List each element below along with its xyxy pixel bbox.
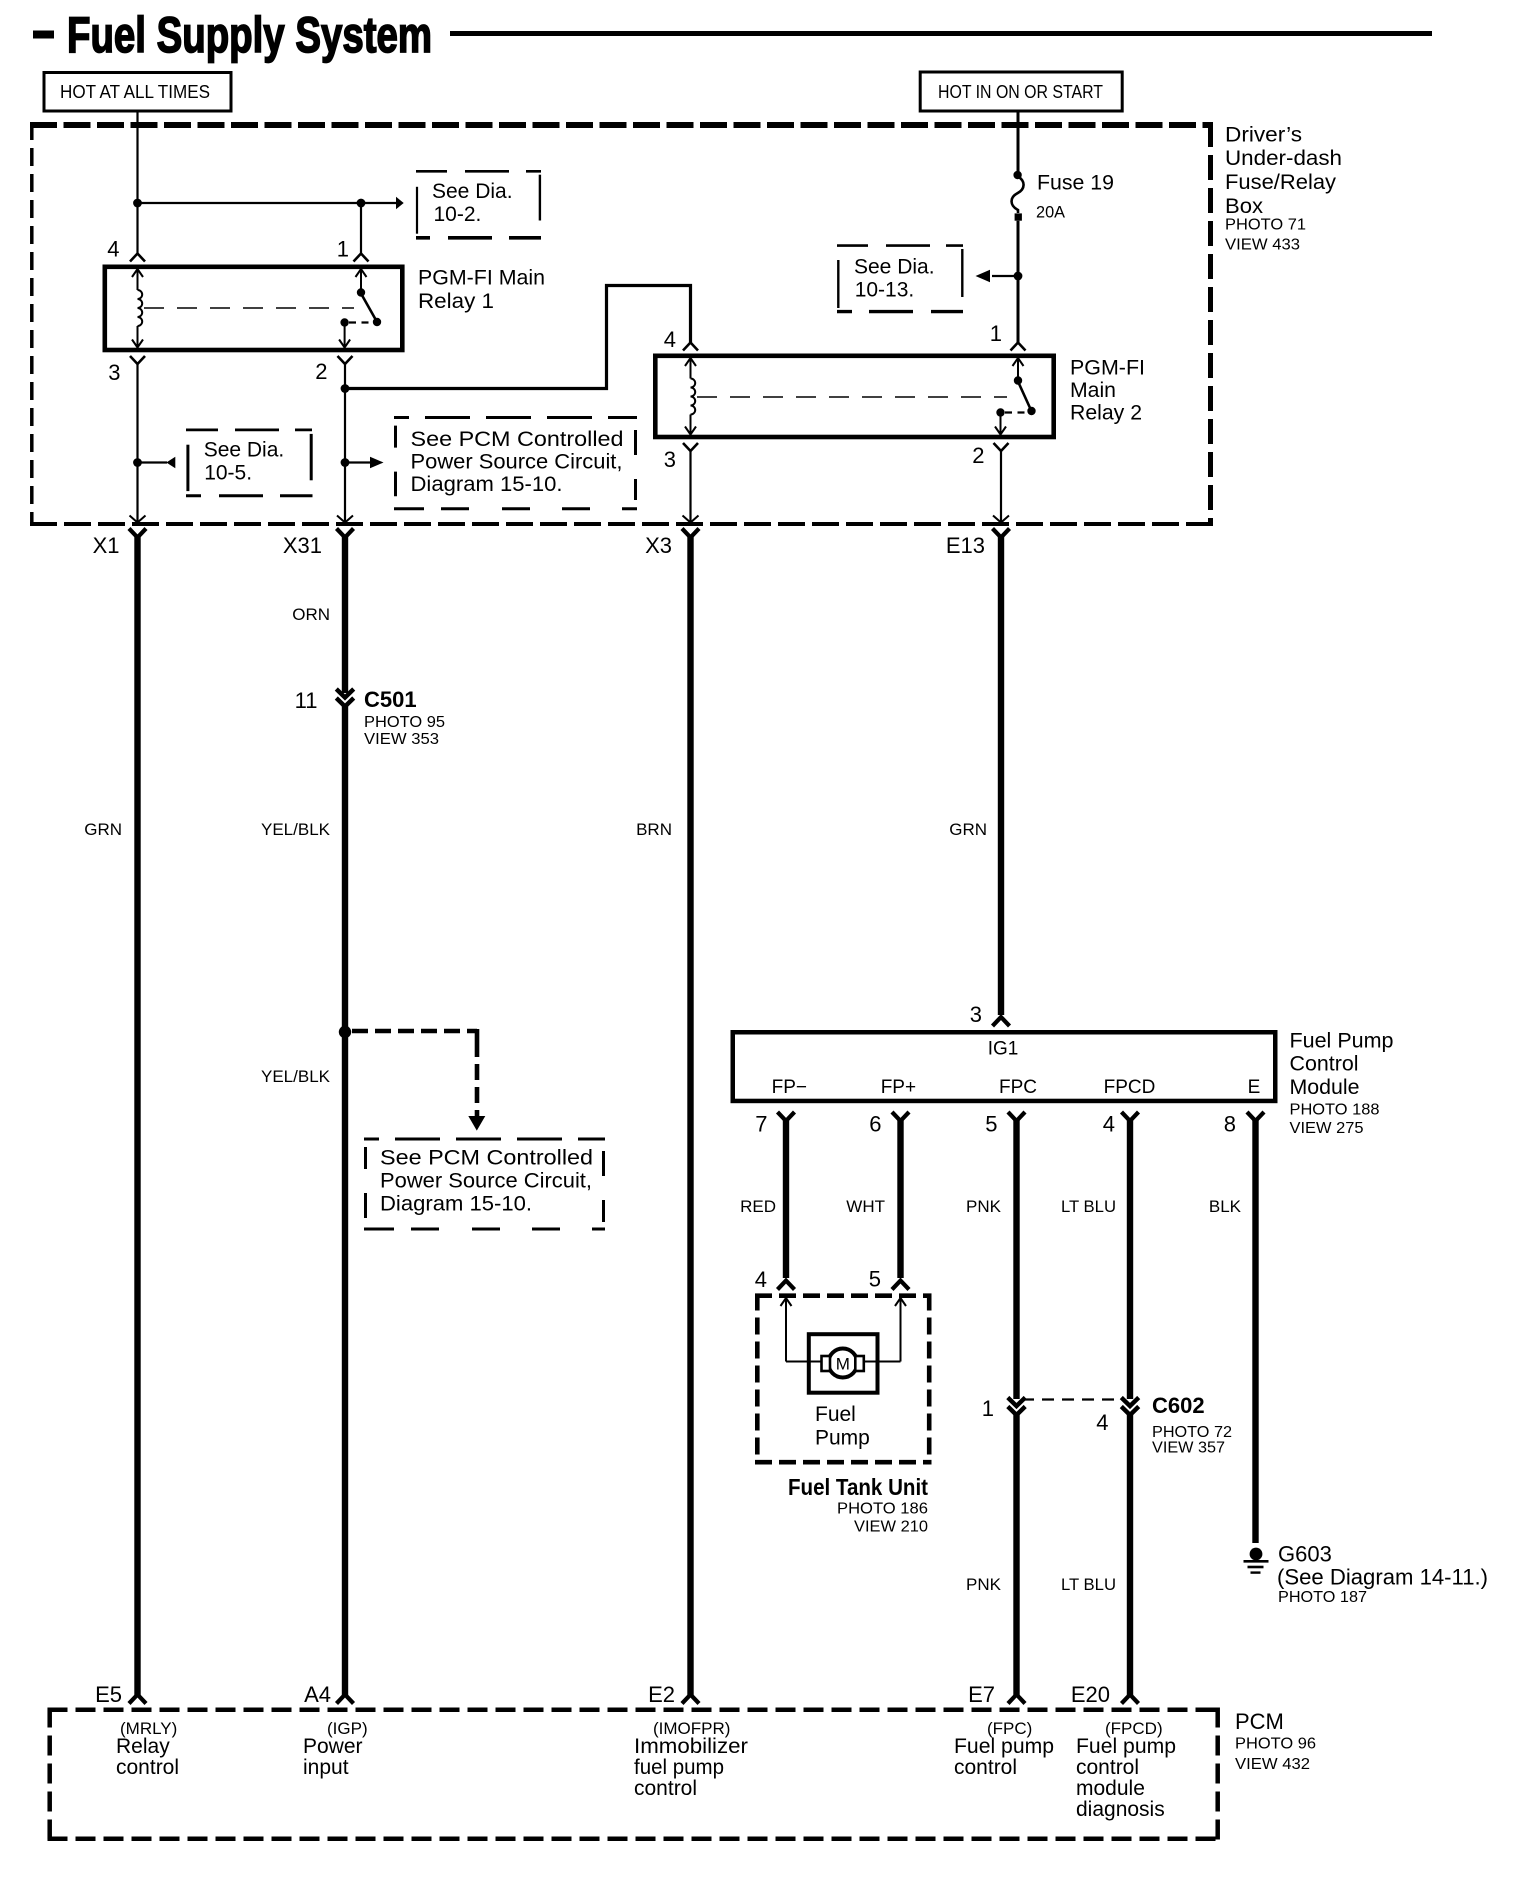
svg-text:input: input (303, 1756, 349, 1779)
See Dia 10-13 box left (837, 260, 839, 308)
dashed stub horizontal (352, 1029, 477, 1034)
See PCM lower box top (364, 1138, 605, 1141)
PCM terminal A4 (337, 1695, 354, 1704)
FTU pin5 inner wire (900, 1298, 902, 1362)
FTU box top (755, 1293, 932, 1298)
svg-text:BLK: BLK (1209, 1197, 1242, 1216)
svg-text:6: 6 (869, 1112, 881, 1137)
ground G603 bar 1 (1244, 1560, 1269, 1563)
See PCM lower box bottom (364, 1228, 605, 1231)
node junction above relay1 pin1 (357, 199, 366, 208)
svg-text:HOT IN ON OR START: HOT IN ON OR START (938, 82, 1103, 102)
svg-text:VIEW 275: VIEW 275 (1290, 1120, 1364, 1137)
See Dia 10-5 box bottom (186, 494, 313, 497)
wire relay1 pin3 to X1 (136, 364, 138, 523)
connector X1 terminal (129, 529, 146, 538)
svg-text:(See Diagram 14-11.): (See Diagram 14-11.) (1277, 1565, 1488, 1590)
connector C602 FPC lower chevron (1008, 1407, 1025, 1416)
svg-text:Diagram 15-10.: Diagram 15-10. (380, 1193, 532, 1216)
svg-text:E2: E2 (648, 1682, 675, 1707)
PCM box top (48, 1707, 1221, 1712)
svg-text:E7: E7 (968, 1682, 995, 1707)
svg-text:GRN: GRN (84, 820, 122, 839)
fuse F19 bottom square (1015, 213, 1022, 220)
svg-text:control: control (1076, 1756, 1139, 1779)
PCM box left (47, 1708, 52, 1842)
arrow at box edge X1 (130, 516, 146, 523)
node junction See Dia 10-13 (1014, 272, 1023, 281)
svg-text:8: 8 (1224, 1112, 1236, 1137)
svg-text:HOT AT ALL TIMES: HOT AT ALL TIMES (60, 82, 210, 102)
connector C501 upper chevron (336, 689, 353, 698)
svg-text:4: 4 (1103, 1112, 1115, 1137)
relay U2 switch arm (1018, 382, 1031, 410)
wire relay2 pin2 to E13 (1000, 451, 1002, 523)
fuel pump box (809, 1334, 878, 1393)
arrow at box edge X31 (337, 516, 353, 523)
svg-text:3: 3 (108, 360, 120, 385)
arrow to See Dia 10-2 (396, 197, 404, 210)
svg-text:Fuse 19: Fuse 19 (1037, 172, 1114, 195)
svg-text:G603: G603 (1278, 1542, 1332, 1567)
wire relay2 pin3 to X3 (689, 451, 691, 523)
svg-text:See Dia.: See Dia. (854, 256, 935, 279)
relay U1 PGM-FI Main Relay 1 box (105, 267, 403, 350)
arrow to See Dia 10-13 (976, 270, 991, 282)
FPCM bottom terminal pin 8 (1247, 1112, 1264, 1121)
FTU box left (755, 1294, 760, 1465)
svg-text:4: 4 (1096, 1410, 1108, 1435)
relay U2 switch contact dot (996, 408, 1004, 416)
svg-text:See Dia.: See Dia. (432, 180, 513, 203)
FPCM bottom terminal pin 5 (1008, 1112, 1025, 1121)
relay U2 pin 1 terminal (1011, 343, 1026, 351)
relay U2 coil wire lower (690, 415, 692, 435)
arrow from See Dia 10-5 (166, 457, 175, 469)
FPCM bottom terminal pin 6 (892, 1112, 909, 1121)
relay U1 coil (138, 290, 143, 326)
wire stub from See Dia 10-5 (138, 461, 168, 463)
svg-text:VIEW 433: VIEW 433 (1225, 237, 1300, 254)
relay U2 coil (691, 379, 696, 415)
svg-text:PHOTO 188: PHOTO 188 (1290, 1101, 1380, 1118)
wire horizontal to relay1 pin1 (138, 202, 362, 204)
wire stub to See PCM box (345, 461, 371, 463)
relay U1 coil pin3 arrow (132, 340, 143, 348)
FPCM bottom terminal pin 7 (778, 1112, 795, 1121)
relay U2 switch feed (1017, 358, 1019, 381)
svg-text:E: E (1248, 1077, 1261, 1098)
wire FPCD upper (LT BLU) (1127, 1118, 1133, 1399)
relay U2 pin2 wire (1000, 413, 1002, 435)
svg-text:Fuel: Fuel (815, 1403, 856, 1426)
fuel pump brush right (855, 1356, 864, 1371)
connector C602 dashed link (1022, 1398, 1124, 1400)
svg-text:C501: C501 (364, 687, 417, 712)
wire battery feed from HOT AT ALL TIMES (136, 113, 138, 254)
svg-text:YEL/BLK: YEL/BLK (261, 1067, 331, 1086)
svg-text:4: 4 (107, 237, 119, 262)
wire X1 to E5 (GRN) (134, 535, 140, 1696)
svg-text:VIEW 432: VIEW 432 (1235, 1756, 1310, 1773)
arrow to See PCM box (370, 457, 384, 469)
svg-text:Fuel pump: Fuel pump (954, 1735, 1054, 1758)
title rule (450, 31, 1432, 36)
svg-text:Driver’s: Driver’s (1225, 124, 1302, 147)
svg-text:E5: E5 (95, 1682, 122, 1707)
relay U1 switch dashed contact (349, 321, 373, 323)
arrow at box edge X3 (683, 516, 699, 523)
relay U2 pin 2 terminal (994, 443, 1009, 451)
svg-text:Power: Power (303, 1735, 363, 1758)
svg-text:PHOTO 71: PHOTO 71 (1225, 217, 1306, 234)
svg-text:5: 5 (869, 1267, 881, 1292)
svg-text:PCM: PCM (1235, 1709, 1284, 1734)
title dash (33, 31, 54, 39)
See PCM upper box bottom (394, 507, 637, 510)
connector X31 terminal (337, 529, 354, 538)
FTU pin 5 terminal (892, 1281, 909, 1290)
svg-text:X31: X31 (283, 533, 322, 558)
ground G603 bar 3 (1251, 1571, 1261, 1573)
relay U1 coil wire lower (137, 326, 139, 348)
svg-text:ORN: ORN (292, 605, 330, 624)
connector E13 terminal (993, 529, 1010, 538)
relay U1 switch pivot (357, 288, 365, 296)
svg-text:3: 3 (970, 1002, 982, 1027)
svg-text:2: 2 (972, 443, 984, 468)
relay U1 switch feed (360, 269, 362, 293)
See Dia 10-5 box top (186, 428, 313, 431)
svg-text:fuel pump: fuel pump (634, 1756, 724, 1779)
relay U2 pin 3 terminal (683, 443, 698, 451)
relay U2 coil wire upper (690, 358, 692, 379)
FTU pin 4 terminal (778, 1281, 795, 1290)
See Dia 10-5 box right (310, 434, 313, 480)
svg-text:E20: E20 (1071, 1682, 1110, 1707)
svg-text:Power Source Circuit,: Power Source Circuit, (380, 1170, 592, 1193)
See Dia 10-13 box top (837, 244, 964, 247)
svg-text:X1: X1 (93, 533, 120, 558)
svg-text:M: M (836, 1355, 850, 1374)
wire FPC upper (PNK) (1013, 1118, 1019, 1399)
relay U2 pin 4 terminal (683, 343, 698, 351)
dashed stub arrowhead (468, 1116, 485, 1131)
svg-text:WHT: WHT (846, 1197, 885, 1216)
fuse/relay box left border (30, 122, 34, 526)
svg-text:LT BLU: LT BLU (1061, 1197, 1116, 1216)
PCM terminal E5 (129, 1695, 146, 1704)
node junction YEL/BLK dashed stub (339, 1026, 351, 1038)
svg-text:Fuse/Relay: Fuse/Relay (1225, 171, 1337, 194)
svg-text:Fuel pump: Fuel pump (1076, 1735, 1176, 1758)
svg-text:See Dia.: See Dia. (204, 439, 285, 462)
relay U1 pin 4 terminal (130, 254, 145, 262)
relay U2 pin2 arrow (995, 427, 1006, 435)
relay U1 pin 1 terminal (354, 254, 369, 262)
svg-text:diagnosis: diagnosis (1076, 1798, 1165, 1821)
FTU box bottom (755, 1460, 932, 1465)
svg-text:A4: A4 (304, 1682, 331, 1707)
svg-text:control: control (116, 1756, 179, 1779)
relay U1 switch contact dot (340, 318, 348, 326)
svg-text:FPC: FPC (999, 1077, 1037, 1098)
ground G603 dot (1250, 1548, 1263, 1561)
FPCM box (733, 1032, 1276, 1101)
svg-text:PHOTO 96: PHOTO 96 (1235, 1736, 1316, 1753)
dashed stub vertical (475, 1029, 480, 1116)
See PCM lower box left (364, 1147, 367, 1218)
svg-text:2: 2 (315, 359, 327, 384)
See PCM lower box right (602, 1151, 605, 1222)
FPCM bottom terminal pin 4 (1122, 1112, 1139, 1121)
connector C602 FPCD upper chevron (1121, 1398, 1138, 1407)
PCM box right (1215, 1708, 1220, 1842)
svg-text:Fuel Tank Unit: Fuel Tank Unit (788, 1474, 928, 1500)
relay U1 pin2 wire (344, 323, 346, 348)
wire E13 to FPCM (GRN) (998, 535, 1004, 1015)
svg-text:Under-dash: Under-dash (1225, 147, 1342, 170)
fuse/relay box right border (1208, 122, 1213, 526)
fuse F19 top dot (1013, 171, 1021, 179)
svg-text:Immobilizer: Immobilizer (634, 1735, 748, 1758)
relay U1 coil pin4 arrow (132, 269, 143, 277)
PCM box bottom (48, 1837, 1221, 1842)
svg-text:FP+: FP+ (881, 1077, 916, 1098)
FTU box right (927, 1294, 932, 1465)
node junction to relay2 link (341, 384, 350, 393)
svg-text:E13: E13 (946, 533, 985, 558)
wire stub to See Dia 10-13 (992, 275, 1018, 277)
ground G603 bar 2 (1248, 1566, 1264, 1569)
node junction X31 column (341, 458, 350, 467)
relay U2 PGM-FI Main Relay 2 box (655, 356, 1053, 437)
svg-text:1: 1 (982, 1396, 994, 1421)
arrow at box edge E13 (993, 516, 1009, 523)
svg-text:7: 7 (755, 1112, 767, 1137)
svg-text:PHOTO 95: PHOTO 95 (364, 714, 445, 731)
HOT IN ON OR START box (920, 72, 1122, 111)
See PCM upper box right (634, 430, 637, 500)
svg-text:RED: RED (740, 1197, 776, 1216)
svg-text:3: 3 (664, 447, 676, 472)
svg-text:Relay 2: Relay 2 (1070, 402, 1142, 425)
connector C602 FPC upper chevron (1008, 1398, 1025, 1407)
node junction on feed wire (133, 199, 142, 208)
relay U2 coil pin3 arrow (685, 427, 696, 435)
wire X31 upper (ORN) (342, 535, 348, 693)
wire X31 lower to A4 (YEL/BLK) (342, 704, 348, 1696)
wire fuse to relay2 pin1 (1017, 221, 1020, 343)
svg-text:4: 4 (664, 327, 676, 352)
svg-text:Box: Box (1225, 195, 1264, 218)
svg-text:Power Source Circuit,: Power Source Circuit, (411, 451, 623, 474)
svg-text:Relay 1: Relay 1 (418, 290, 494, 313)
FTU pin4 inner wire (785, 1298, 787, 1362)
See Dia 10-2 box bottom (416, 236, 541, 240)
svg-text:10-2.: 10-2. (434, 203, 482, 226)
wire relay1 pin2 to X31 (344, 364, 346, 523)
wire FP+ (WHT) (897, 1118, 903, 1278)
fuse/relay box top border (30, 122, 1213, 128)
relay U1 pin1 arrow (356, 269, 367, 277)
svg-text:PHOTO 72: PHOTO 72 (1152, 1424, 1232, 1441)
wire X3 to E2 (BRN) (687, 535, 693, 1696)
svg-text:Diagram 15-10.: Diagram 15-10. (411, 473, 563, 496)
relay U1 switch arm end dot (373, 318, 381, 326)
wire stub to See Dia 10-2 (361, 202, 397, 204)
relay U2 switch arm end dot (1027, 407, 1035, 415)
FTU pin4 inner arrow (781, 1298, 792, 1306)
svg-text:YEL/BLK: YEL/BLK (261, 820, 331, 839)
svg-text:Module: Module (1290, 1076, 1360, 1099)
svg-text:Main: Main (1070, 379, 1116, 402)
svg-text:BRN: BRN (636, 820, 672, 839)
svg-text:4: 4 (755, 1267, 767, 1292)
See Dia 10-2 box right (539, 175, 541, 221)
HOT AT ALL TIMES box (44, 73, 231, 112)
See Dia 10-2 box top (416, 170, 541, 173)
svg-text:LT BLU: LT BLU (1061, 1575, 1116, 1594)
svg-text:PHOTO 187: PHOTO 187 (1278, 1589, 1367, 1606)
See Dia 10-13 box right (961, 249, 963, 297)
relay U1 pin2 arrow (339, 340, 350, 348)
svg-text:5: 5 (985, 1112, 997, 1137)
svg-text:PHOTO 186: PHOTO 186 (837, 1501, 928, 1518)
svg-text:PNK: PNK (966, 1575, 1002, 1594)
relay U2 coil pin4 arrow (685, 358, 696, 366)
svg-text:Fuel Pump: Fuel Pump (1290, 1029, 1394, 1052)
svg-text:Pump: Pump (815, 1427, 870, 1450)
fuel pump motor circle (828, 1349, 857, 1378)
svg-text:1: 1 (337, 237, 349, 262)
svg-text:GRN: GRN (949, 820, 987, 839)
svg-text:20A: 20A (1036, 203, 1066, 222)
svg-text:module: module (1076, 1777, 1145, 1800)
PCM terminal E2 (682, 1695, 699, 1704)
fuel pump brush left (822, 1356, 831, 1371)
svg-text:10-5.: 10-5. (204, 461, 252, 484)
svg-text:FPCD: FPCD (1104, 1077, 1156, 1098)
svg-text:See PCM Controlled: See PCM Controlled (411, 428, 624, 451)
connector C501 lower chevron (336, 698, 353, 707)
relay U2 switch dashed contact (1005, 411, 1027, 413)
svg-text:Relay: Relay (116, 1735, 170, 1758)
relay U2 coil-switch dashed link (697, 396, 1007, 398)
connector X3 terminal (682, 529, 699, 538)
See PCM upper box top (394, 416, 637, 419)
connector FPCM pin 3 terminal (993, 1017, 1010, 1026)
svg-text:VIEW 210: VIEW 210 (854, 1519, 928, 1536)
relay U1 coil wire upper (137, 269, 139, 290)
relay U1 switch arm (361, 294, 377, 322)
relay U2 switch pivot (1014, 376, 1022, 384)
See Dia 10-13 box bottom (837, 310, 964, 313)
fuse/relay box bottom border (30, 522, 1213, 526)
svg-text:PGM-FI Main: PGM-FI Main (418, 267, 545, 290)
svg-text:control: control (634, 1777, 697, 1800)
svg-text:10-13.: 10-13. (855, 278, 915, 301)
svg-text:PGM-FI: PGM-FI (1070, 357, 1145, 380)
connector C602 FPCD lower chevron (1121, 1407, 1138, 1416)
wire FPCD lower to E20 (LT BLU) (1127, 1412, 1133, 1696)
relay U1 coil-switch dashed link (144, 307, 354, 309)
PCM terminal E7 (1008, 1695, 1025, 1704)
node junction X1 column (133, 458, 142, 467)
fuse F19 element (1012, 177, 1024, 214)
relay U1 pin 2 terminal (338, 356, 353, 364)
wire FPC lower to E7 (PNK) (1013, 1412, 1019, 1696)
svg-text:VIEW 357: VIEW 357 (1152, 1440, 1225, 1457)
svg-text:1: 1 (990, 321, 1002, 346)
svg-text:IG1: IG1 (988, 1039, 1019, 1060)
svg-text:FP−: FP− (772, 1077, 807, 1098)
relay U2 pin1 arrow (1013, 358, 1024, 366)
wire E to ground (BLK) (1252, 1118, 1258, 1543)
svg-text:control: control (954, 1756, 1017, 1779)
wire FP- (RED) (783, 1118, 789, 1278)
See Dia 10-2 box left (416, 187, 418, 234)
wire relay1 pin1 drop (360, 203, 362, 254)
svg-text:Fuel Supply System: Fuel Supply System (67, 7, 432, 63)
See PCM upper box left (394, 426, 397, 497)
svg-text:X3: X3 (645, 533, 672, 558)
FTU pin5 inner arrow (895, 1298, 906, 1306)
PCM terminal E20 (1122, 1695, 1139, 1704)
svg-text:11: 11 (295, 688, 318, 713)
See Dia 10-5 box left (186, 445, 189, 491)
svg-text:VIEW 353: VIEW 353 (364, 731, 439, 748)
wire link relay1 pin2 to relay2 pin4 (345, 286, 691, 389)
relay U1 pin 3 terminal (130, 356, 145, 364)
wire ignition feed from HOT IN ON OR START (1017, 113, 1020, 177)
svg-text:See PCM Controlled: See PCM Controlled (380, 1147, 593, 1170)
svg-text:C602: C602 (1152, 1393, 1205, 1418)
svg-text:Control: Control (1290, 1053, 1359, 1076)
svg-text:PNK: PNK (966, 1197, 1002, 1216)
